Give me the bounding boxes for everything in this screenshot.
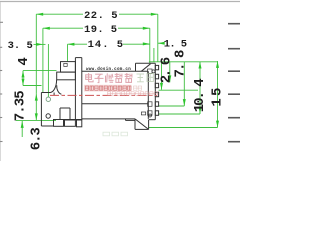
pad 3 bbox=[77, 120, 82, 127]
dim 10.4 line bbox=[199, 62, 201, 114]
tube mid line bbox=[82, 103, 149, 105]
inner pin box 5 bbox=[148, 102, 152, 107]
14.5 left arrow bbox=[68, 43, 75, 46]
svg-text:1. 5: 1. 5 bbox=[164, 39, 187, 51]
top border line bbox=[0, 1, 240, 3]
6.3 up arrow bbox=[21, 121, 24, 128]
dim 15 bottom connector bbox=[149, 127, 218, 129]
dim 14.5 line bbox=[68, 43, 88, 45]
22.5 left arrow bbox=[36, 13, 43, 16]
7.35 top arrow bbox=[35, 94, 38, 101]
right foot right vertical bbox=[148, 120, 150, 130]
pin 3 bbox=[155, 83, 158, 87]
dim 4 bottom arrow bbox=[22, 79, 25, 86]
svg-text:4: 4 bbox=[16, 57, 32, 65]
left edge ruler ticks bbox=[0, 22, 3, 141]
pin 6 bbox=[155, 111, 158, 116]
22.5 right arrow bbox=[151, 13, 158, 16]
right foot top step horizontal bbox=[126, 119, 135, 121]
right foot bevel diagonal bbox=[135, 119, 149, 129]
pad 2 bbox=[65, 120, 76, 126]
dim 4 top arrow bbox=[22, 71, 25, 78]
char 2 zi bbox=[95, 74, 104, 82]
pin box inner mark bbox=[64, 63, 67, 66]
svg-text:3. 5: 3. 5 bbox=[8, 40, 33, 52]
foot step horizontal bbox=[60, 107, 70, 109]
char 4 bang bbox=[115, 73, 122, 83]
svg-text:7.35: 7.35 bbox=[13, 91, 29, 122]
dim 19.5 line bbox=[43, 27, 83, 29]
hole 1 (green-gray circle) bbox=[46, 97, 50, 101]
faint second red watermark row bbox=[108, 92, 158, 95]
dim 2.6 line bbox=[169, 62, 171, 83]
dim 19.5 right riser bbox=[149, 28, 151, 63]
core end chamfer diagonal bbox=[141, 64, 150, 72]
left border line bbox=[0, 2, 2, 161]
7.35 bottom arrow bbox=[35, 113, 38, 120]
pad 1 bbox=[54, 120, 64, 127]
10.4 bottom arrow bbox=[199, 107, 202, 114]
svg-text:22. 5: 22. 5 bbox=[84, 10, 118, 22]
red dashed centerline bbox=[50, 94, 157, 96]
greenish watermark continuation over flange bbox=[137, 74, 154, 83]
inner pin box 6 bbox=[148, 111, 152, 116]
inner pin circle bottom bbox=[149, 114, 152, 117]
wire slot outer arc bbox=[50, 80, 57, 93]
dim 15 line bbox=[217, 61, 219, 128]
3.5 arrow bbox=[36, 43, 43, 46]
step box under pin box bbox=[57, 72, 76, 80]
dim 1.5 tail bbox=[158, 42, 163, 44]
inner pin box bottom bbox=[141, 112, 145, 115]
dim 22.5 line bbox=[36, 13, 83, 15]
pin 2 bbox=[155, 74, 158, 79]
right flange bottom cap bbox=[149, 119, 156, 121]
foot bottom bbox=[41, 125, 53, 127]
dim line x=184.3 bbox=[183, 62, 185, 106]
bottom-left connector bbox=[16, 119, 56, 121]
left flange inner vertical bbox=[81, 58, 83, 120]
dim 22.5 right riser bbox=[157, 14, 159, 62]
pin 4 bbox=[155, 92, 158, 97]
svg-text:10. 4: 10. 4 bbox=[192, 79, 208, 113]
pin extension vertical bbox=[153, 48, 155, 62]
pin 1 bbox=[155, 65, 158, 69]
inner pin circle upper bbox=[152, 70, 155, 73]
7.8 down arrow bbox=[160, 83, 163, 90]
dim 4 top connector bbox=[23, 70, 57, 72]
15 top arrow bbox=[216, 61, 219, 68]
svg-text:19. 5: 19. 5 bbox=[84, 24, 118, 36]
dim 7.35 arrows span on x=36.3 riser, bottom part bbox=[35, 94, 37, 121]
right flange inner face bbox=[147, 71, 149, 119]
right foot left vertical bbox=[134, 119, 136, 129]
hole1 extension line bbox=[47, 44, 49, 97]
svg-text:15: 15 bbox=[210, 85, 226, 106]
wire slot inner arc bbox=[57, 85, 62, 94]
foot step vertical right bbox=[69, 108, 71, 120]
1.5 right outside arrow bbox=[158, 42, 165, 45]
14.5 / 1.5 shared right arrow bbox=[143, 42, 150, 45]
char 1 dian bbox=[86, 73, 93, 82]
foot step vertical left bbox=[59, 108, 61, 120]
x=184.3 down arrow bbox=[183, 99, 186, 106]
pad top line bbox=[54, 119, 82, 121]
faint red watermark bits over flange bbox=[134, 86, 142, 90]
10.4 top arrow bbox=[199, 62, 202, 69]
core end box left bbox=[135, 63, 137, 71]
svg-text:6.3: 6.3 bbox=[29, 128, 45, 151]
core end box top bbox=[136, 62, 156, 64]
19.5 right arrow bbox=[143, 27, 150, 30]
foot left edge bbox=[40, 93, 42, 127]
inner pin box upper bbox=[148, 69, 153, 74]
tube bottom line bbox=[82, 118, 135, 120]
pins bottom connector bbox=[159, 89, 199, 91]
2.6 down arrow bbox=[168, 75, 171, 82]
svg-text:7. 8: 7. 8 bbox=[172, 50, 188, 78]
dim 22.5 left riser bbox=[35, 14, 37, 94]
pink background band bbox=[84, 85, 132, 92]
red small watermark row (pseudo-glyphs) bbox=[85, 86, 131, 90]
svg-text:www.dosin.com.cn: www.dosin.com.cn bbox=[86, 67, 131, 72]
pin 5 bbox=[155, 102, 158, 107]
right top connector bbox=[149, 61, 218, 63]
dim 19.5 left riser bbox=[42, 28, 44, 92]
dim 7.8 line bbox=[161, 62, 163, 90]
dim 4 line bbox=[22, 71, 24, 86]
dim 4 bottom connector bbox=[23, 85, 42, 87]
char 3 wei bbox=[106, 73, 114, 82]
ledge corner vertical bbox=[53, 93, 55, 96]
green arrowheads bbox=[21, 13, 219, 128]
char 5 bang bbox=[125, 73, 132, 83]
tube top line bbox=[82, 70, 149, 72]
left flange top cap bbox=[75, 57, 81, 59]
ledge horizontal bbox=[41, 92, 50, 94]
right foot top step vertical bbox=[125, 119, 127, 121]
pink CJK watermark (pseudo-glyphs) bbox=[86, 73, 132, 83]
right foot bottom bbox=[135, 128, 149, 130]
15 bottom arrow bbox=[216, 121, 219, 128]
left flange outer vertical bbox=[74, 58, 76, 120]
right flange right face bbox=[154, 63, 156, 119]
dim 10.4 bottom connector bbox=[159, 113, 201, 115]
faint watermark smudge bottom bbox=[103, 132, 128, 136]
pin box top-left bbox=[61, 62, 76, 73]
right edge gray dashes bbox=[228, 24, 240, 142]
svg-text:14. 5: 14. 5 bbox=[88, 39, 125, 51]
dim 3.5 line bbox=[34, 43, 46, 45]
19.5 left arrow bbox=[43, 27, 50, 30]
pin connector mid bbox=[159, 105, 185, 107]
dim 6.3 line bbox=[21, 121, 23, 137]
dim 14.5 left riser bbox=[67, 44, 69, 61]
hole 2 (black circle) bbox=[46, 114, 50, 118]
